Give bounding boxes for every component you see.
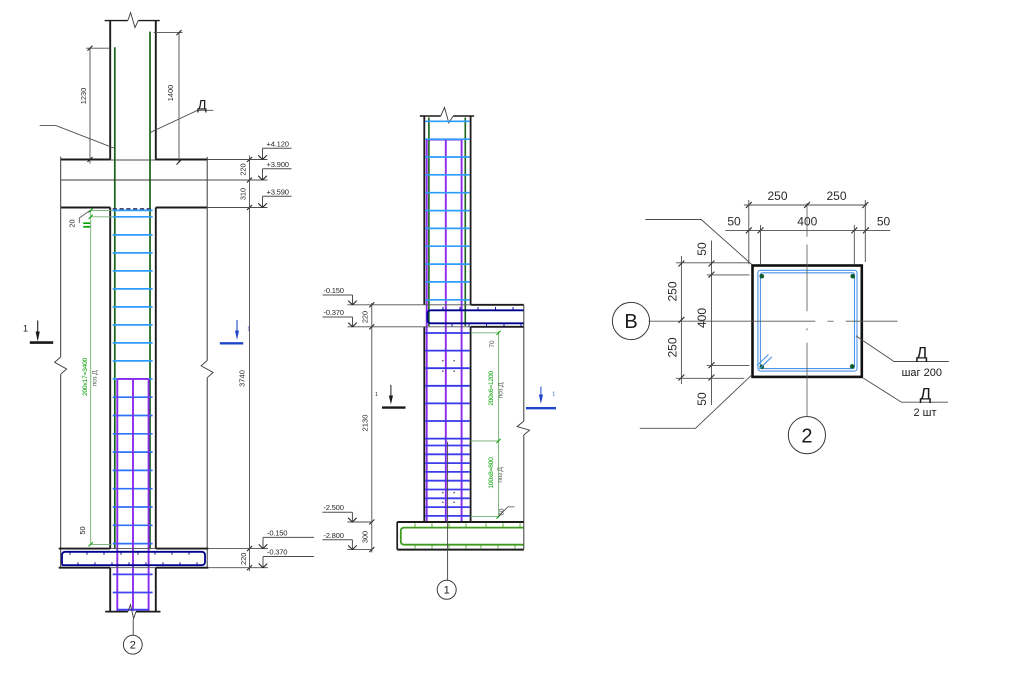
svg-text:-2.800: -2.800 bbox=[323, 531, 343, 540]
left column ties below slab bbox=[113, 573, 153, 575]
middle column walls lower bbox=[423, 327, 425, 522]
svg-text:2: 2 bbox=[801, 425, 812, 447]
section mark 1 blue middle bbox=[540, 387, 542, 396]
svg-text:310: 310 bbox=[239, 188, 248, 200]
svg-text:220: 220 bbox=[360, 311, 369, 323]
svg-text:-0.370: -0.370 bbox=[267, 548, 287, 557]
svg-text:+4.120: +4.120 bbox=[267, 139, 289, 148]
elevation mark +3.900 bbox=[207, 179, 267, 181]
svg-text:3740: 3740 bbox=[238, 370, 247, 387]
left dimension inner 50 400 50 bbox=[711, 241, 713, 406]
dimension 1230 left bbox=[89, 48, 91, 163]
svg-text:поз Д: поз Д bbox=[497, 382, 504, 398]
svg-text:-0.150: -0.150 bbox=[267, 528, 287, 537]
double dash mark on green dimension bbox=[83, 222, 90, 224]
svg-text:250: 250 bbox=[826, 189, 846, 203]
svg-text:50: 50 bbox=[78, 526, 87, 534]
leader top left of section bbox=[645, 220, 752, 265]
upper slab top line +4.120 bbox=[61, 159, 110, 161]
middle column center line to circle 1 bbox=[447, 442, 449, 581]
break symbol top of left column bbox=[128, 13, 138, 28]
svg-text:300: 300 bbox=[360, 531, 369, 543]
slab left edge line with break bbox=[60, 157, 62, 357]
elevation mark -0.370 middle bbox=[348, 326, 425, 328]
svg-text:В: В bbox=[624, 311, 637, 333]
footing left edge bbox=[396, 522, 398, 550]
upper slab middle line +3.900 bbox=[61, 179, 208, 181]
svg-text:2 шт: 2 шт bbox=[913, 407, 936, 419]
left column purple bars bbox=[116, 379, 118, 611]
middle slab rebar ticks bbox=[442, 307, 444, 310]
top dimension extension lines bbox=[748, 200, 750, 264]
left column bottom edge with break bbox=[105, 611, 128, 613]
left dimension outer 250 250 bbox=[680, 256, 682, 384]
lower slab top line -0.150 bbox=[59, 548, 110, 550]
elevation mark -0.150 left drawing bbox=[208, 548, 268, 550]
svg-text:50: 50 bbox=[695, 242, 709, 256]
leader line to circle 2 bbox=[132, 620, 134, 636]
left column rebar bar left (green) bbox=[114, 47, 116, 548]
left dimension extension lines bbox=[676, 262, 749, 264]
left column rebar bar right (green) bbox=[149, 32, 151, 549]
section stirrup inner (blue) bbox=[760, 273, 854, 369]
top dimension row 250 250 bbox=[744, 204, 867, 206]
svg-text:250: 250 bbox=[767, 189, 787, 203]
left column ties lower zone (blue) bbox=[113, 396, 153, 398]
circle mark 1 middle drawing bbox=[437, 580, 456, 599]
diagonal bar marks bottom left bbox=[757, 355, 769, 366]
middle column ties above slab bbox=[425, 120, 470, 122]
svg-text:Д: Д bbox=[197, 97, 207, 113]
slab right edge line with break bbox=[206, 157, 208, 361]
elevation mark -0.150 middle bbox=[348, 304, 425, 306]
svg-text:2130: 2130 bbox=[360, 415, 369, 432]
svg-text:1: 1 bbox=[552, 392, 555, 398]
middle column ties dense zone bbox=[425, 445, 470, 447]
middle dimension chain 220 2130 300 bbox=[371, 303, 373, 553]
svg-text:Д: Д bbox=[916, 344, 928, 363]
section square column outline bbox=[753, 266, 862, 377]
svg-text:50: 50 bbox=[727, 214, 741, 228]
middle column ties below slab bbox=[425, 332, 470, 334]
svg-text:400: 400 bbox=[695, 308, 709, 328]
dimension 1400 bbox=[178, 33, 180, 163]
svg-text:220: 220 bbox=[239, 163, 248, 175]
leader bottom left of section bbox=[640, 375, 752, 429]
label D 2sht with leader bbox=[863, 378, 948, 402]
svg-text:1400: 1400 bbox=[166, 85, 175, 101]
dashed tie line under slab bbox=[113, 208, 153, 210]
svg-text:-0.150: -0.150 bbox=[324, 286, 344, 295]
svg-text:поз Д: поз Д bbox=[497, 467, 504, 483]
label D with leader bbox=[150, 110, 214, 132]
label 60 with leader bbox=[498, 507, 514, 517]
lower slab rebar band (navy) bbox=[62, 552, 205, 565]
lower slab bottom line -0.370 bbox=[59, 567, 110, 569]
upper slab bottom line +3.590 bbox=[61, 207, 110, 209]
svg-text:Д: Д bbox=[920, 385, 932, 404]
svg-text:200х17=3400: 200х17=3400 bbox=[82, 357, 89, 396]
green dimension line left of column bbox=[90, 210, 92, 544]
circle mark 2 section bbox=[788, 417, 825, 454]
svg-text:200х6=1200: 200х6=1200 bbox=[488, 371, 495, 406]
svg-text:шаг 200: шаг 200 bbox=[902, 367, 942, 379]
section mark 1 black middle bbox=[390, 385, 392, 397]
leader line upper left bbox=[40, 126, 115, 149]
section mark 1 black left bbox=[37, 321, 39, 335]
svg-text:поз Д: поз Д bbox=[92, 370, 99, 386]
section stirrup outer (blue) bbox=[758, 270, 857, 371]
svg-text:1230: 1230 bbox=[79, 88, 88, 104]
middle column walls upper bbox=[423, 116, 425, 305]
horizontal centerline through section bbox=[649, 320, 816, 322]
footing top line -2.500 bbox=[397, 521, 524, 523]
circle mark 2 left drawing bbox=[123, 635, 142, 654]
lower slab rebar ticks bbox=[69, 552, 71, 555]
svg-text:400: 400 bbox=[797, 214, 817, 228]
middle slab rebar band (navy) bbox=[428, 310, 524, 323]
svg-text:60: 60 bbox=[498, 508, 505, 515]
left column top edge with break bbox=[105, 20, 128, 22]
label D shag 200 with leader bbox=[856, 336, 949, 362]
svg-text:1: 1 bbox=[444, 585, 450, 597]
elevation mark -2.800 bbox=[347, 549, 372, 551]
svg-text:70: 70 bbox=[489, 340, 496, 348]
section mark 1 blue right bbox=[236, 320, 238, 333]
svg-text:-2.500: -2.500 bbox=[323, 503, 343, 512]
grid circle B bbox=[612, 302, 649, 339]
elevation mark +3.590 bbox=[207, 207, 267, 209]
top dimension row 50 400 50 bbox=[725, 229, 890, 231]
left column walls below lower slab bbox=[109, 568, 111, 612]
svg-text:2: 2 bbox=[130, 639, 136, 651]
svg-text:+3.900: +3.900 bbox=[267, 160, 289, 169]
middle column purple bars bbox=[426, 140, 428, 522]
left column walls between slabs bbox=[109, 208, 111, 549]
svg-text:+3.590: +3.590 bbox=[267, 187, 289, 196]
middle slab bottom line -0.370 bbox=[471, 326, 524, 328]
middle slab top line -0.150 bbox=[471, 304, 524, 306]
middle column green bars bbox=[428, 118, 430, 327]
svg-text:50: 50 bbox=[695, 392, 709, 406]
left column ties upper zone (light blue) bbox=[113, 209, 153, 211]
elevation mark -2.500 bbox=[347, 521, 372, 523]
svg-text:20: 20 bbox=[68, 219, 77, 227]
svg-text:1: 1 bbox=[375, 392, 378, 398]
svg-text:100х8=800: 100х8=800 bbox=[488, 457, 495, 489]
vertical centerline through section bbox=[806, 203, 808, 237]
svg-text:-0.370: -0.370 bbox=[324, 308, 344, 317]
svg-text:50: 50 bbox=[877, 214, 891, 228]
small rebar dots middle column bbox=[442, 360, 444, 362]
svg-text:220: 220 bbox=[239, 553, 248, 565]
left column upper walls bbox=[109, 21, 111, 160]
right cut edge with break bbox=[523, 305, 525, 421]
elevation mark -0.370 left drawing bbox=[208, 567, 268, 569]
svg-text:250: 250 bbox=[665, 281, 679, 301]
corner rebar dots bbox=[760, 274, 765, 279]
footing rebar outline (green) bbox=[401, 528, 524, 545]
dimension line 3740 chain bbox=[249, 156, 251, 572]
footing bottom line -2.800 bbox=[397, 549, 524, 551]
elevation mark +4.120 bbox=[207, 159, 267, 161]
svg-text:250: 250 bbox=[665, 337, 679, 357]
svg-text:1: 1 bbox=[23, 324, 28, 334]
middle column top edge with break bbox=[420, 115, 441, 117]
green dimension right of middle column bbox=[498, 332, 500, 517]
footing rebar ticks bbox=[414, 523, 416, 527]
